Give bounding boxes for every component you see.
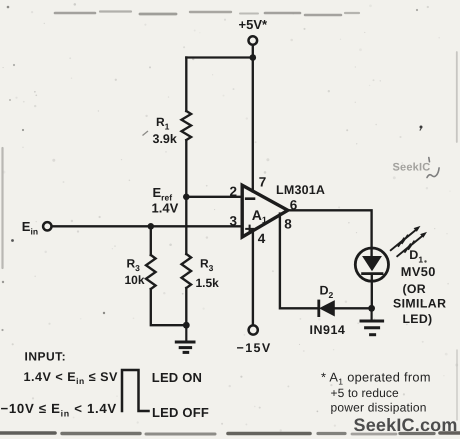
ground LED bbox=[361, 308, 383, 334]
ground divider bbox=[176, 325, 194, 352]
label opamp minus bbox=[246, 197, 254, 200]
wire R3 1.5k to ground node bbox=[185, 288, 187, 325]
svg-text:SeekIC.com: SeekIC.com bbox=[354, 415, 458, 435]
wire pin 4 to -15V bbox=[252, 231, 254, 325]
svg-text:LED): LED) bbox=[403, 312, 433, 326]
op-amp A1 bbox=[242, 185, 288, 237]
svg-text:MV50: MV50 bbox=[401, 264, 436, 279]
svg-text:1.5k: 1.5k bbox=[196, 276, 220, 290]
node Eref junction bbox=[183, 194, 190, 201]
terminal Ein bbox=[43, 222, 51, 230]
wire +5V vertical to pin 7 bbox=[252, 45, 254, 192]
wire Eref to R3 1.5k bbox=[185, 197, 187, 254]
wire LED cathode to ground node bbox=[371, 275, 373, 308]
svg-text:8: 8 bbox=[284, 216, 292, 231]
svg-text:LED OFF: LED OFF bbox=[152, 405, 209, 420]
wire D2 to LED node bbox=[334, 307, 371, 309]
wire R1 top lead bbox=[185, 58, 187, 112]
wire top rail bbox=[186, 56, 253, 58]
svg-text:7: 7 bbox=[259, 175, 267, 190]
wire output pin 6 to LED bbox=[288, 210, 372, 256]
svg-text:+5 to reduce: +5 to reduce bbox=[331, 386, 399, 400]
resistor R1 bbox=[182, 111, 192, 140]
wire Ein to R3 10k bbox=[150, 226, 152, 255]
resistor R3 1.5k bbox=[182, 254, 192, 288]
svg-text:3: 3 bbox=[230, 214, 238, 229]
wire pin 8 down bbox=[280, 214, 318, 309]
label opamp plus bbox=[246, 226, 253, 233]
svg-text:LM301A: LM301A bbox=[276, 183, 325, 197]
svg-text:power dissipation: power dissipation bbox=[331, 400, 427, 414]
svg-text:−10V ≤ Ein < 1.4V: −10V ≤ Ein < 1.4V bbox=[1, 401, 117, 418]
svg-text:−15V: −15V bbox=[237, 341, 272, 355]
junction ground node bbox=[183, 322, 190, 329]
terminal -15V bbox=[249, 325, 258, 334]
junction LED ground node bbox=[368, 305, 375, 312]
wire Ein to pin 3 bbox=[52, 225, 243, 227]
waveform pulse bbox=[122, 370, 149, 411]
svg-text:10k: 10k bbox=[125, 273, 145, 287]
svg-text:INPUT:: INPUT: bbox=[25, 349, 67, 363]
junction +5V rail bbox=[250, 54, 257, 61]
svg-text:4: 4 bbox=[258, 231, 266, 246]
svg-text:3.9k: 3.9k bbox=[153, 132, 177, 146]
LED D1 bbox=[355, 248, 388, 281]
svg-text:1.4V < Ein ≤ SV: 1.4V < Ein ≤ SV bbox=[24, 370, 119, 386]
diode D2 bbox=[319, 301, 335, 316]
svg-text:SeekIC: SeekIC bbox=[393, 162, 431, 174]
LED light arrows bbox=[391, 226, 427, 256]
svg-text:LED ON: LED ON bbox=[152, 370, 202, 385]
junction Ein node bbox=[148, 223, 155, 230]
svg-text:SIMILAR: SIMILAR bbox=[393, 296, 446, 310]
terminal +5V bbox=[249, 36, 258, 45]
wire R3 10k to ground rail bbox=[151, 289, 187, 325]
wire R1 bottom lead to Eref bbox=[185, 140, 187, 197]
svg-text:2: 2 bbox=[230, 184, 238, 199]
svg-text:(OR: (OR bbox=[403, 282, 426, 296]
svg-text:IN914: IN914 bbox=[310, 323, 346, 337]
stray mark squiggle bbox=[427, 158, 439, 178]
resistor R3 10k bbox=[146, 255, 156, 289]
wire Eref to pin 2 bbox=[186, 196, 242, 198]
svg-text:1.4V: 1.4V bbox=[152, 201, 179, 216]
svg-text:* A1 operated from: * A1 operated from bbox=[321, 369, 431, 386]
svg-text:+5V*: +5V* bbox=[239, 17, 268, 32]
